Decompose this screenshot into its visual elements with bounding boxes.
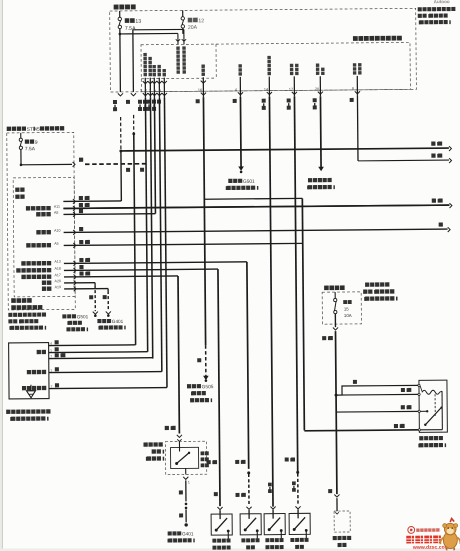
row wire y=213 (传输线): [63, 213, 155, 216]
driver multiplex unit dashed box: [13, 177, 75, 297]
wire V147 down (fed by F9 bus): [145, 98, 147, 352]
end chevron H2: [449, 158, 451, 163]
keyless unit label 无钥匙进入控制单元: [6, 410, 10, 414]
svg-text:www.dzsc.com: www.dzsc.com: [412, 545, 450, 551]
door switch label 前乘客侧: [265, 538, 269, 542]
pin name 继电器 (x=242): [238, 64, 241, 67]
row wire color label 红/白: [79, 271, 83, 275]
wire V108 dashed: [107, 291, 109, 311]
pin connector chevron x=271: [267, 92, 272, 95]
ground label 搭地点G501: [62, 314, 66, 318]
keyless row label 搭地: [37, 350, 41, 354]
relay terminal t2: [418, 393, 420, 395]
svg-text:7: 7: [50, 355, 52, 359]
keyless wire color label 灰: [55, 347, 59, 351]
svg-text:Autooo: Autooo: [434, 0, 450, 4]
wire V247 down: [247, 262, 249, 469]
wire V166 down: [164, 98, 167, 388]
wire V205 down (to ground G505): [203, 97, 205, 345]
pin name 左后车门开关 (x=296): [295, 64, 298, 67]
junction at (22,163): [20, 164, 23, 167]
connector chevron F15: [333, 327, 338, 330]
keyless row label 点火输入: [27, 370, 31, 374]
wire color label 绿/白 at x=152: [143, 100, 147, 104]
row label 蓄电池输入: [26, 206, 30, 210]
fuse F13 symbol: [118, 17, 121, 20]
pin wire x=161 through box bottom: [158, 78, 160, 98]
wire into door switch 前乘客侧: [272, 510, 274, 519]
relay t3 internal wire: [421, 410, 428, 412]
door switch label 车门开关: [265, 545, 269, 549]
wire color label 白 at x=359: [350, 98, 354, 102]
wire V303 from tail-relay row: [302, 198, 304, 430]
corner note 驾驶员侧仪表板下: [418, 7, 422, 11]
label 绿/黑 on V247: [235, 460, 239, 464]
key switch inner label 点火: [201, 451, 205, 455]
connector chevron V122: [118, 93, 123, 96]
svg-text:G401: G401: [112, 319, 124, 324]
svg-text:A17: A17: [54, 273, 60, 277]
wire V156 down: [154, 98, 155, 214]
row connector chevron y=213: [73, 212, 75, 217]
wire V122 dashed inline section: [120, 117, 122, 151]
wire relay T3 feed from V335: [336, 410, 419, 413]
wire V271 down to front passenger door switch: [269, 97, 273, 507]
engine box side label (发动机舱后侧): [364, 297, 366, 301]
engine power box label 一直供电: [324, 286, 329, 291]
pin wire x=166 through box bottom: [163, 78, 165, 98]
label 绿 on V218 lower: [214, 492, 218, 496]
pin name 传输线 (x=156): [152, 65, 155, 68]
row label 点火钥匙输入: [21, 275, 25, 279]
pin name 乘客门开关 (x=271): [267, 56, 270, 59]
unit label 驾驶员侧: [11, 298, 16, 303]
pin name 内部灯开关 (x=322): [321, 68, 324, 71]
wire V322 down to exterior-light arrow: [319, 96, 322, 167]
row connector chevron y=207: [73, 206, 75, 211]
wire into door switch 驾驶员侧: [219, 510, 221, 519]
wire V161 down: [159, 98, 161, 372]
label 蓝 right edge: [439, 222, 443, 226]
keyless row wire y=351: [49, 351, 148, 354]
keyless wire color label 黄: [55, 367, 59, 371]
ground label (左侧踏脚板后): [226, 186, 227, 190]
svg-text:12: 12: [198, 18, 204, 24]
key switch wire out: [185, 468, 187, 474]
fuse F12 stub from bus: [182, 10, 184, 16]
door switch label 左后车门: [290, 538, 294, 542]
keyless control unit box: [9, 343, 49, 399]
label 黑 on V205: [197, 358, 201, 362]
row label 驾驶员车门开关: [16, 268, 20, 272]
label 黑 on V95: [89, 295, 93, 299]
pin wire x=359 through box bottom: [356, 76, 358, 96]
label 绿/红 on V271: [268, 483, 272, 487]
fuse F15 label 熔丝 15 10A: [343, 300, 347, 304]
svg-text:7.5A: 7.5A: [25, 146, 36, 152]
keyless row wire y=371: [49, 371, 162, 374]
wire H2 y=162 from V359 (红/白): [358, 159, 449, 162]
label 白/绿 at relay wire2: [401, 405, 405, 409]
wire into door switch 右后车门: [248, 510, 250, 519]
svg-text:1: 1: [50, 349, 52, 353]
wire F9 out to right: [21, 163, 72, 165]
relay t4 internal wire: [421, 429, 443, 431]
fuse F15 symbol: [334, 298, 337, 301]
svg-text:8: 8: [352, 87, 354, 91]
row wire y=281.5 (搭铁): [64, 282, 95, 284]
row wire color label 蓝/白: [79, 203, 83, 207]
row wire color label 蓝/黑: [79, 196, 83, 200]
svg-text:A20: A20: [55, 279, 61, 283]
wire relay coil feed upper: [336, 385, 419, 395]
door switch label 车门开关: [212, 546, 216, 550]
wire ground stub row9: [107, 289, 109, 291]
door switch label 驾驶员侧: [212, 539, 216, 543]
end chevron H1: [449, 146, 451, 151]
wire color label 绿/黑 at x=147: [138, 100, 142, 104]
ground label (仪表板: [191, 392, 192, 396]
svg-text:13: 13: [135, 19, 141, 25]
label 输入: [15, 195, 19, 199]
key switch inner label 开关: [201, 463, 205, 467]
wire color label 黑 at x=205: [196, 99, 200, 103]
ground label 接地点G505: [187, 384, 191, 388]
wire color label 绿 on V135: [126, 100, 130, 104]
relay terminal t1: [418, 384, 420, 386]
wire F15 down: [334, 314, 336, 327]
trunk light switch dashed box: [334, 511, 350, 532]
row label 传输线: [36, 212, 40, 216]
svg-text:1: 1: [140, 89, 142, 93]
wire color label 绿/红 at x=156: [147, 100, 151, 104]
wire V247 dashed lower: [248, 474, 250, 506]
room light power box dashed: [7, 132, 76, 310]
wire V135 dashed section: [133, 115, 135, 134]
scan edge left: [0, 0, 3, 551]
wire V178 down to key switch: [178, 276, 179, 433]
svg-text:1: 1: [50, 369, 52, 373]
sub-box bottom edge: [141, 77, 216, 80]
inline connector dots key ground: [185, 503, 188, 506]
engine box side label 熔丝/继电器盒: [363, 290, 367, 294]
relay label 尾灯继电器: [419, 436, 423, 440]
arrow to exterior light system: [318, 167, 324, 172]
pin wire x=271 through box bottom: [268, 77, 270, 97]
junction at (335,396): [335, 394, 338, 397]
row wire y=231 (传输线): [64, 229, 448, 232]
wire entry pin V180: [177, 33, 179, 44]
svg-text:A18: A18: [54, 267, 60, 271]
label (外部灯开关): [307, 186, 308, 190]
svg-text:G501: G501: [77, 314, 89, 319]
ground label 左侧后部): [66, 327, 70, 331]
label 一直供电: [114, 5, 119, 10]
keyless unit header 驾驶员侧仪表板下: [8, 313, 12, 317]
junction at (122,33): [119, 33, 122, 36]
svg-text:A11: A11: [54, 205, 60, 209]
wire H199 from V205 to V303: [204, 197, 302, 200]
pin connector chevron x=322: [318, 92, 323, 95]
label 驾驶侧多路控制单元: [353, 36, 358, 41]
label 点火: [15, 188, 19, 192]
trunk switch label 行李箱灯: [333, 536, 337, 540]
wire V135 down: [132, 30, 135, 92]
door switch contact 右后车门: [244, 528, 247, 531]
pin wire x=147 through box bottom: [144, 78, 146, 98]
watermark 维库一下: [406, 536, 414, 544]
ground point dot G401: [184, 523, 187, 526]
fuse F15 stub: [334, 292, 336, 298]
fuse F13 stub from bus: [119, 11, 121, 17]
connector chevron trunk: [334, 494, 339, 497]
door switch label 右后车门: [241, 538, 245, 542]
wire V242 down to ground: [239, 97, 242, 167]
junction node at (135,133): [132, 132, 135, 135]
wire V296 dashed lower: [297, 473, 299, 505]
door switch contact 左后车门: [293, 528, 296, 531]
wire V359 down: [356, 96, 359, 161]
label 黑 on key ground wire: [179, 490, 183, 494]
row wire y=207 (蓄电池输入): [63, 205, 449, 208]
ground label 搭地点G401: [97, 319, 101, 323]
fuse F12 symbol: [181, 17, 184, 20]
door switch box 驾驶员侧车门开关: [211, 514, 232, 535]
svg-text:3: 3: [149, 89, 151, 93]
scan edge bottom: [0, 549, 460, 551]
row wire color label 橙: [79, 209, 83, 213]
row wire y=262 (右后车门开关): [64, 262, 247, 264]
wire V296 upper: [294, 96, 297, 472]
label 灰 under dashed wire: [126, 168, 130, 172]
ground label (仪表板左侧): [98, 326, 99, 330]
wire color label 白/红 on V122: [113, 100, 117, 104]
svg-text:6: 6: [159, 89, 161, 93]
pin connector chevron x=359: [355, 91, 360, 94]
row connector chevron y=244: [73, 243, 75, 248]
fuse F9 stub: [20, 133, 22, 138]
relay coil: [422, 390, 440, 394]
svg-text:A19: A19: [55, 285, 61, 289]
fuse F9 label 熔丝9 7.5A: [25, 139, 29, 143]
door switch ground contact 右后车门: [256, 529, 259, 532]
ground arrow G505: [203, 376, 209, 381]
relay terminal t4: [418, 429, 420, 431]
wire color label 绿/黄 at x=161: [152, 100, 156, 104]
keyless row label 蓄电池输入: [22, 386, 26, 390]
row wire color label 红/黑: [79, 240, 83, 244]
wire V95 dashed: [94, 285, 96, 311]
relay dashed actuator link: [434, 394, 436, 417]
pin wire x=152 through box bottom: [149, 78, 151, 98]
svg-text:2: 2: [145, 89, 147, 93]
pin name 蓄电池输入 (x=152): [148, 57, 151, 60]
keyless wire color label 黑: [55, 340, 59, 344]
row label 尾灯继电器: [26, 243, 30, 247]
key switch contact: [175, 462, 178, 465]
relay switch arm: [425, 407, 442, 425]
entry pin label left: [176, 46, 179, 49]
key switch label 点火钥匙: [143, 442, 147, 446]
svg-text:20: 20: [315, 87, 319, 91]
svg-text:G505: G505: [202, 384, 214, 390]
pin connector chevrons x=161: [157, 81, 162, 84]
relay terminal t3: [418, 410, 420, 412]
keyless unit header 熔丝/继电器盒: [8, 319, 12, 323]
ground label 右侧后部): [190, 398, 194, 402]
entry pin label right: [182, 46, 185, 49]
svg-text:7: 7: [50, 385, 52, 389]
row wire color label 绿: [79, 265, 83, 269]
wire V335 down to junction: [334, 331, 337, 395]
ground label (仪表板左侧) under key: [167, 539, 168, 543]
wire relay coil feed lower: [336, 393, 419, 396]
label 黑 under dashed wire: [140, 168, 144, 172]
label 白/绿 on relay coil wire: [401, 388, 405, 392]
wire battery row b to right edge: [63, 205, 449, 208]
keyless wire color label 蓝: [55, 383, 59, 387]
key switch label 开关/: [152, 449, 156, 453]
wire color label 蓝/白 at x=296: [287, 98, 291, 102]
pin connector chevrons x=152: [148, 81, 153, 84]
pin wire x=205 through box bottom: [202, 77, 204, 97]
pin wire x=296 through box bottom: [293, 76, 295, 96]
svg-text:9: 9: [35, 140, 38, 146]
relay label (仪表板左侧): [418, 444, 419, 448]
door switch ground contact 前乘客侧: [280, 529, 283, 532]
svg-text:G501: G501: [243, 179, 255, 185]
inline connector dot on V247: [247, 471, 250, 474]
corner note 熔丝/继电器盒: [418, 14, 422, 18]
pin connector chevron x=242: [238, 92, 243, 95]
wire V122 fuse13 down: [119, 28, 122, 91]
engine power box dashed: [322, 292, 361, 324]
label 绿 above trunk switch: [328, 489, 332, 493]
keyless wire color label 蓝/红: [55, 353, 59, 357]
keyless row wire y=357: [49, 357, 153, 360]
wire H1 y=150 (白/红): [121, 148, 449, 151]
ground arrow G501 mid: [238, 166, 244, 171]
trunk switch ticks: [335, 512, 339, 514]
svg-text:4: 4: [50, 342, 52, 346]
svg-text:1: 1: [188, 480, 190, 484]
pin wire x=242 through box bottom: [239, 77, 241, 97]
door switch label 开关: [246, 545, 250, 549]
label 白/红 right: [431, 142, 435, 146]
svg-text:16: 16: [198, 88, 202, 92]
key switch inner label 钥匙: [201, 457, 205, 461]
svg-text:45: 45: [34, 127, 40, 133]
wire into door switch 左后车门: [297, 509, 299, 518]
wire V205 dashed tail: [205, 345, 207, 376]
row wire y=269 (驾驶员车门开关): [64, 269, 218, 270]
label 红/黑 at relay wire: [394, 424, 398, 428]
door switch ground contact 左后车门: [305, 529, 308, 532]
row wire y=200 (蓄电池输入a): [63, 200, 121, 203]
door switch contact 驾驶员侧: [215, 529, 218, 532]
label 黑 on key ground lower: [179, 513, 183, 517]
end chevron y231: [448, 227, 450, 232]
fuse F9 symbol: [19, 138, 22, 141]
svg-text:G401: G401: [182, 531, 194, 536]
svg-text:20A: 20A: [188, 25, 198, 31]
wire F12 branch y=33 to V122: [120, 32, 178, 35]
wire V303 bottom to relay: [304, 430, 419, 431]
label 绿/黑 on V247 lower: [236, 493, 240, 497]
svg-text:7.5A: 7.5A: [125, 26, 136, 32]
door switch box 右后车门开关: [240, 514, 261, 535]
watermark logo circle: [408, 526, 415, 533]
wire V122 lower to battery row: [120, 151, 122, 201]
connector chevron door switch 驾驶员侧: [217, 507, 222, 510]
row connector chevron y=287.5: [74, 286, 76, 291]
pin connector chevrons x=166: [162, 81, 167, 84]
ground chevron V108: [106, 311, 111, 314]
trunk switch label 开关: [338, 543, 342, 547]
wire V135 down to keyless row: [134, 134, 136, 345]
wire V152 down: [150, 98, 152, 359]
row connector chevron y=200: [73, 199, 75, 204]
fuse F13 label 熔丝13 7.5A: [125, 18, 130, 23]
pin name 点火开关输入 (x=147): [143, 53, 146, 56]
inline connector dot on V296: [296, 471, 299, 474]
relay right bus: [441, 391, 443, 429]
ground chevron V95: [93, 312, 98, 315]
pin name 搭铁 (x=166): [162, 69, 165, 72]
connector chevron below key switch: [183, 477, 188, 480]
row wire color label 灰: [79, 227, 83, 231]
svg-text:10A: 10A: [344, 313, 352, 318]
unit label 多路控制单元: [11, 305, 16, 310]
ground symbol inside keyless unit: [30, 385, 32, 391]
pin name 传输线 (x=161): [157, 65, 160, 68]
driver multiplex control unit dashed box: [141, 42, 410, 91]
label 黑 on V108: [103, 295, 107, 299]
svg-text:A13: A13: [54, 260, 60, 264]
label 黑 after connector: [79, 158, 83, 162]
ground label 接地点G501: [228, 179, 232, 183]
row label 搭铁: [42, 281, 46, 285]
label 绿/黄 on V218: [207, 460, 211, 464]
key switch wire in: [178, 441, 180, 451]
connector chevron at box edge y=163: [73, 162, 75, 167]
svg-text:4: 4: [235, 88, 237, 92]
ground label 接地点G401: [168, 531, 172, 535]
connector chevron door switch 右后车门: [246, 507, 251, 510]
row wire color label 绿/黑: [79, 258, 83, 262]
svg-text:A10: A10: [54, 229, 60, 233]
connector chevron door switch 前乘客侧: [270, 507, 275, 510]
label 白/蓝 on V296: [285, 457, 289, 461]
pin connector chevron x=296: [292, 92, 297, 95]
svg-text:ST: ST: [27, 127, 33, 133]
pin connector chevrons x=147: [143, 81, 148, 84]
pin wire x=156 through box bottom: [153, 78, 155, 98]
svg-text:17: 17: [289, 87, 293, 91]
power box (always hot) dashed outline: [110, 8, 417, 92]
taillight relay box: [419, 380, 447, 432]
wire F12 branch y=29: [133, 28, 184, 30]
label 绿/蓝 on V296 lower: [292, 481, 296, 485]
row connector chevron y=275.5: [74, 274, 76, 279]
watermark small text 维库电子市场网: [416, 528, 419, 531]
entry chevron V180: [176, 39, 180, 41]
pin wire x=322 through box bottom: [319, 76, 321, 96]
pin name 驾驶员门开关 (x=359): [358, 63, 361, 66]
row wire y=244 (尾灯继电器): [64, 243, 303, 245]
label 白/绿 under F15: [322, 336, 326, 340]
label 白/蓝 right edge: [432, 198, 436, 202]
